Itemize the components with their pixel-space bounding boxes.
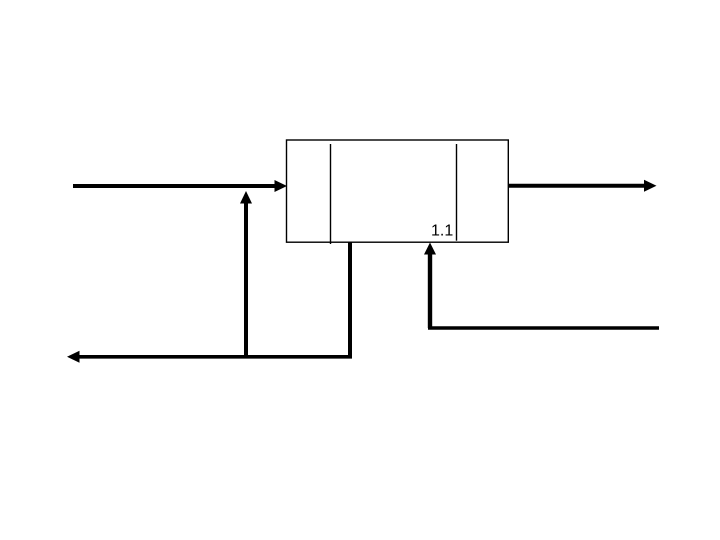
divider line left	[330, 144, 332, 244]
divider line right	[456, 144, 458, 241]
wire box bottom down	[348, 242, 352, 357]
arrow output left	[67, 351, 352, 363]
arrow input left	[73, 180, 287, 192]
svg-text:1.1: 1.1	[431, 223, 453, 240]
arrow mechanism up	[424, 243, 659, 329]
process box 1.1	[287, 140, 509, 242]
arrow control up	[240, 191, 252, 357]
arrow output right	[509, 180, 657, 192]
